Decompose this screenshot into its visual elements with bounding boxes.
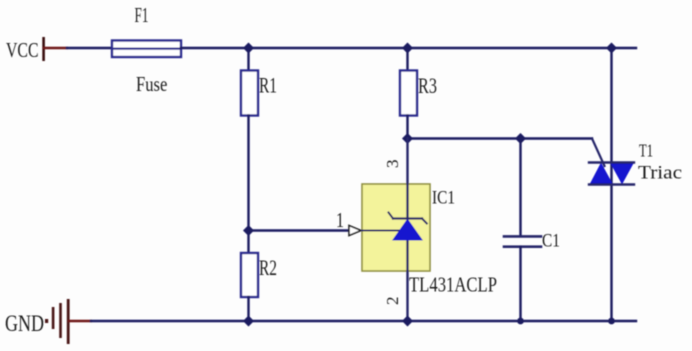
svg-text:1: 1 [336, 208, 344, 232]
svg-text:R2: R2 [259, 255, 277, 280]
node VCC port bar [42, 37, 45, 61]
svg-text:IC1: IC1 [432, 188, 455, 209]
node junction bottom at R2 [243, 316, 254, 327]
wire gate diagonal into triac [592, 139, 605, 167]
wire R3 bottom to gate node [406, 116, 408, 139]
ground GND dot [45, 319, 48, 323]
tl431 cathode bar [393, 217, 422, 219]
svg-text:3: 3 [383, 160, 402, 169]
tl431 cathode right tick [422, 219, 427, 224]
wire anode vertical to ground rail [406, 241, 408, 322]
triac bottom bar [589, 183, 634, 185]
wire pin1 inner lead [362, 230, 400, 232]
svg-text:T1: T1 [639, 141, 653, 161]
resistor R1 [241, 71, 258, 116]
wire R3 branch vertical [406, 48, 408, 71]
wire VCC power stub (maroon) [44, 47, 67, 49]
fuse F1 body [112, 41, 181, 58]
resistor R3 [400, 71, 417, 116]
triac T1 left triangle [590, 163, 614, 185]
svg-text:GND: GND [5, 311, 44, 337]
svg-text:R3: R3 [418, 73, 437, 98]
wire triac main vertical [610, 48, 612, 321]
node junction bottom at C1 [517, 318, 524, 325]
svg-text:TL431ACLP: TL431ACLP [409, 273, 497, 297]
triac top bar [589, 161, 634, 163]
triac T1 right triangle [610, 163, 634, 185]
wire R1 bottom to junction [247, 116, 249, 254]
wire top rail (fuse to right end) [181, 47, 636, 49]
node junction top at R1 [243, 43, 254, 54]
wire C1 top lead [519, 139, 521, 237]
wire pin1 reference horizontal [249, 229, 350, 231]
svg-text:Triac: Triac [638, 162, 682, 183]
node junction top at R3 [402, 43, 413, 54]
ic IC1 yellow body [362, 184, 430, 271]
node junction top at triac [606, 43, 617, 54]
svg-text:Fuse: Fuse [136, 72, 167, 96]
wire R2 bottom to ground rail [247, 297, 249, 321]
wire top rail left (VCC to fuse) [67, 47, 112, 49]
ground GND bar medium [59, 303, 62, 338]
svg-text:C1: C1 [542, 231, 560, 252]
pin 1 open arrow [349, 226, 361, 236]
wire gate rail horizontal [408, 137, 593, 139]
svg-text:2: 2 [383, 297, 402, 306]
wire cathode vertical through IC [406, 139, 408, 219]
tl431 U1 triangle [392, 219, 423, 241]
ground GND bar large [67, 299, 70, 344]
node junction gate rail at R3 [402, 133, 413, 144]
wire C1 bottom lead [519, 247, 521, 321]
wire GND power stub (maroon) [69, 320, 91, 322]
resistor R2 [241, 253, 258, 297]
svg-text:F1: F1 [135, 3, 149, 27]
tl431 cathode left tick [389, 213, 394, 219]
svg-text:VCC: VCC [6, 38, 39, 62]
svg-text:R1: R1 [259, 72, 277, 97]
node junction bottom at IC anode [402, 316, 413, 327]
wire R1 branch vertical [247, 48, 249, 71]
node junction bottom at triac [608, 318, 615, 325]
capacitor C1 top plate [504, 235, 541, 238]
node junction gate rail at C1 [515, 133, 526, 144]
capacitor C1 bottom plate [504, 245, 541, 248]
wire bottom ground rail [91, 320, 636, 322]
ground GND bar small [52, 307, 55, 329]
node junction at pin1 branch [243, 225, 254, 236]
